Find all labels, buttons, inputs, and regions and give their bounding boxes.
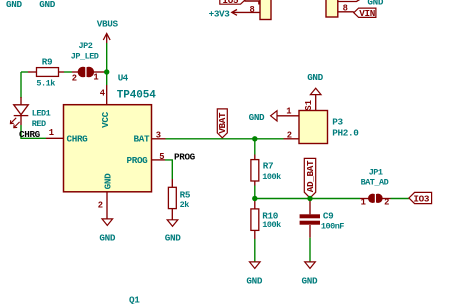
svg-text:8: 8 (250, 5, 255, 15)
svg-text:1: 1 (49, 128, 54, 138)
svg-text:5.1k: 5.1k (36, 79, 55, 89)
svg-text:VIN: VIN (359, 8, 375, 19)
svg-text:VCC: VCC (100, 111, 111, 127)
svg-text:1: 1 (361, 197, 366, 207)
svg-text:IO3: IO3 (413, 193, 429, 204)
svg-text:2: 2 (72, 74, 77, 84)
svg-text:BAT_AD: BAT_AD (361, 178, 389, 188)
svg-text:GND: GND (39, 0, 55, 10)
svg-text:2k: 2k (180, 200, 190, 210)
svg-text:+3V3: +3V3 (209, 9, 231, 20)
svg-text:C9: C9 (323, 211, 334, 222)
svg-text:GND: GND (246, 275, 262, 286)
svg-text:PROG: PROG (127, 155, 149, 166)
svg-text:GND: GND (99, 232, 115, 243)
svg-text:GND: GND (302, 275, 318, 286)
svg-text:VBAT: VBAT (217, 112, 228, 134)
svg-text:S1: S1 (304, 100, 314, 111)
svg-text:JP1: JP1 (369, 168, 383, 178)
svg-text:2: 2 (384, 197, 389, 207)
svg-text:R7: R7 (263, 160, 273, 171)
svg-text:100k: 100k (262, 220, 281, 230)
svg-text:2: 2 (287, 130, 292, 140)
svg-text:GND: GND (165, 232, 181, 243)
svg-text:3: 3 (156, 130, 161, 140)
svg-text:RED: RED (32, 119, 46, 129)
svg-text:8: 8 (343, 3, 348, 13)
svg-text:LED1: LED1 (32, 108, 51, 118)
svg-text:TP4054: TP4054 (117, 89, 157, 101)
svg-text:R9: R9 (42, 56, 53, 67)
svg-text:R5: R5 (180, 190, 191, 201)
svg-text:VBUS: VBUS (97, 19, 119, 30)
svg-text:1: 1 (286, 107, 291, 117)
svg-text:BAT: BAT (134, 133, 150, 144)
svg-text:JP_LED: JP_LED (71, 52, 99, 62)
svg-text:Q1: Q1 (129, 294, 140, 304)
svg-text:JP2: JP2 (79, 41, 93, 51)
svg-text:CHRG: CHRG (19, 129, 41, 140)
svg-text:PROG: PROG (174, 152, 196, 163)
svg-text:AD_BAT: AD_BAT (305, 160, 316, 192)
svg-text:GND: GND (249, 112, 265, 123)
svg-text:GND: GND (102, 173, 113, 189)
svg-text:IO5: IO5 (223, 0, 239, 6)
svg-text:GND: GND (367, 0, 383, 7)
svg-text:GND: GND (6, 0, 22, 10)
svg-text:100nF: 100nF (321, 221, 344, 231)
svg-text:P3: P3 (332, 117, 343, 128)
svg-text:PH2.0: PH2.0 (332, 128, 359, 139)
svg-text:4: 4 (100, 89, 106, 99)
svg-text:CHRG: CHRG (67, 134, 89, 145)
svg-text:GND: GND (307, 72, 323, 83)
svg-text:5: 5 (159, 152, 164, 162)
svg-text:2: 2 (98, 201, 103, 211)
svg-text:100k: 100k (262, 172, 281, 182)
svg-text:1: 1 (93, 73, 98, 83)
svg-text:U4: U4 (118, 73, 129, 84)
